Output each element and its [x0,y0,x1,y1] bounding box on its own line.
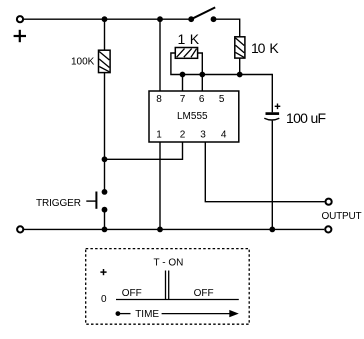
junction node at 100K top [102,16,108,22]
junction node 10K bus [237,72,243,78]
junction node ground/trigger [102,227,108,233]
wire pin7 [182,75,184,92]
svg-text:0: 0 [101,294,107,305]
label 100 uF [286,110,326,126]
svg-text:1: 1 [178,31,186,47]
junction node pin7 bus [180,72,186,78]
pin 1 label [156,130,162,141]
wire V+ down to 100K [104,19,106,50]
junction node at pin8 top [157,16,163,22]
pushbutton bottom contact [102,207,108,213]
pushbutton top contact [102,189,108,195]
svg-text:OFF: OFF [194,288,214,299]
wire bus to capacitor top [271,74,273,113]
wire trigger junction to pushbutton top contact [104,159,106,192]
label OUTPUT [322,211,362,222]
svg-text:3: 3 [200,130,206,141]
svg-text:TIME: TIME [135,309,159,320]
svg-text:7: 7 [180,94,186,105]
wire pin1 to ground rail [159,142,161,229]
junction node ground/capacitor [269,227,275,233]
svg-text:LM555: LM555 [177,111,208,122]
capacitor C1 top plate [266,112,280,115]
pin 5 label [219,94,225,105]
svg-text:4: 4 [221,130,227,141]
label TRIGGER [36,198,81,209]
wire drop to 10K [239,19,241,37]
wire pin2 to trigger node [105,142,183,159]
resistor 10K [235,37,245,58]
plus label (timing axis) [100,269,106,275]
junction node pin6 bus [199,72,205,78]
svg-text:OFF: OFF [122,288,142,299]
label 10 K [251,40,279,56]
svg-text:8: 8 [156,94,162,105]
timing pulse (double line) [166,271,169,300]
pin 3 label [200,130,206,141]
pin 4 label [221,130,227,141]
terminal T2 (supply return) [17,226,23,232]
label 100K [71,57,95,68]
label LM555 [177,111,208,122]
svg-text:10: 10 [251,40,266,56]
wire 10K bottom to bus [239,58,241,74]
pushbutton actuator bar [95,192,97,209]
svg-text:K: K [190,31,200,47]
junction node ground/pin1 [157,227,163,233]
label 0 (timing axis) [101,294,107,305]
wire 100K bottom to trigger junction [104,73,106,160]
wire pin6 [201,75,203,92]
svg-text:T - ON: T - ON [154,258,184,269]
svg-text:TRIGGER: TRIGGER [36,198,81,209]
label TIME [135,309,159,320]
timing baseline [116,299,239,301]
svg-text:6: 6 [199,94,205,105]
switch S1 lever [191,7,215,19]
resistor 100K [99,50,111,72]
time axis arrow line [162,313,231,315]
time axis left line [118,313,131,315]
pin 2 label [180,130,186,141]
switch S1 right contact [211,16,217,22]
wire capacitor bottom to ground rail [271,121,273,230]
capacitor C1 plus sign [275,104,281,110]
label T - ON [154,258,184,269]
wire top rail right segment [214,18,240,20]
op-amp U1 LM555 body [149,91,239,142]
wire pushbutton bottom to ground rail [104,210,106,230]
wire 1K right stub and loop down [198,53,203,75]
svg-text:1: 1 [156,130,162,141]
capacitor C1 bottom plate (curved) [264,118,279,120]
time axis start dot [116,311,121,316]
svg-text:100 uF: 100 uF [286,110,326,126]
svg-text:100K: 100K [71,57,95,68]
plus label (supply polarity) [14,30,26,42]
pin 7 label [180,94,186,105]
terminal T4 (output return) [325,226,331,232]
svg-text:2: 2 [180,130,186,141]
pushbutton stub wire [86,200,96,202]
svg-text:K: K [269,40,279,56]
switch S1 left contact [188,16,194,22]
wire pin3 to output terminal [205,142,324,202]
label OFF left [122,288,142,299]
pin 8 label [156,94,162,105]
resistor 1K [175,48,197,59]
svg-text:OUTPUT: OUTPUT [322,211,362,222]
pin 6 label [199,94,205,105]
wire pin8 from top rail [159,19,161,91]
timing diagram dotted border [86,249,250,325]
label OFF right [194,288,214,299]
wire bus pin7-pin6-10K-cap [183,74,273,76]
label 1 K [178,31,200,47]
junction node trigger/pin2 [102,156,108,162]
wire 1K left stub and loop down [171,53,183,75]
terminal T3 (output hot) [326,199,332,205]
time axis arrowhead [229,310,239,317]
wire top rail left segment [23,18,191,20]
svg-text:5: 5 [219,94,225,105]
wire ground rail [23,228,324,230]
terminal T1 (V+ supply) [17,16,23,22]
